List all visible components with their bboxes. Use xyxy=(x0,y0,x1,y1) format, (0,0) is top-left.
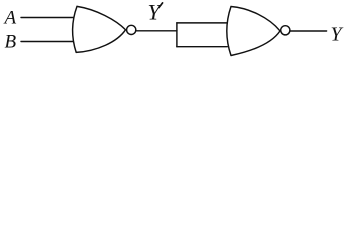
svg-text:Y: Y xyxy=(148,0,163,25)
wire A input xyxy=(21,17,74,19)
wire from U1 bubble to branch xyxy=(136,30,177,32)
wire branch top to U2 input xyxy=(177,22,227,24)
NOR gate U1 output bubble xyxy=(127,25,136,34)
svg-text:B: B xyxy=(5,32,17,53)
svg-text:Y: Y xyxy=(331,24,344,46)
prime mark on Y xyxy=(159,3,163,8)
wire B input xyxy=(21,41,73,43)
NOR gate U2 output bubble xyxy=(281,26,290,35)
wire branch bottom to U2 input xyxy=(177,46,227,48)
wire U2 output xyxy=(290,30,327,32)
svg-text:A: A xyxy=(3,8,17,29)
wire branch vertical (junction) xyxy=(176,23,178,47)
NOR gate U1 body xyxy=(73,6,126,52)
NOR gate U2 body xyxy=(227,7,280,56)
